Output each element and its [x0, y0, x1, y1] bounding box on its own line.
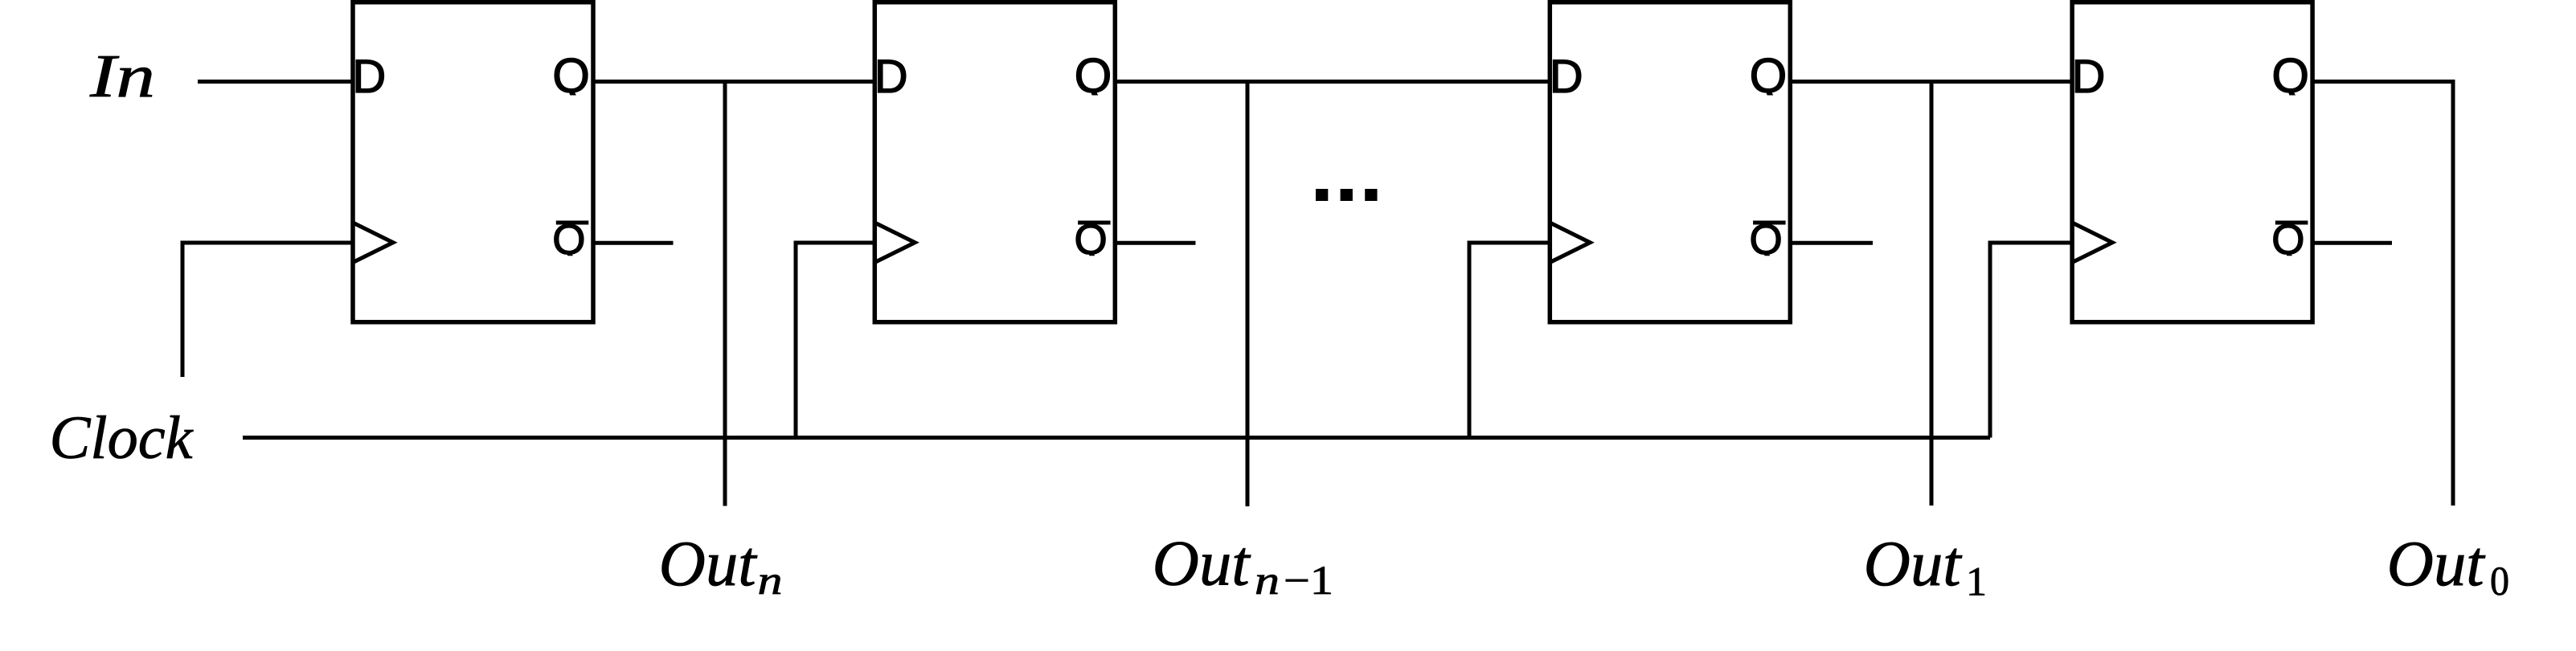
svg-text:Q: Q [1075, 49, 1112, 103]
wire U4 clock input from clock bus end [1990, 243, 2074, 438]
U4 pin label Q [2271, 49, 2309, 103]
U4 Qbar overline [2275, 221, 2308, 225]
U4 clock edge triangle [2072, 223, 2112, 263]
U1 pin label Q [552, 49, 590, 103]
svg-text:Q: Q [1750, 49, 1788, 103]
wire U2 Qbar stub [1115, 241, 1195, 245]
svg-text:−1: −1 [1284, 559, 1333, 604]
ellipsis dots between U2 and U3 [1316, 189, 1328, 201]
U1 clock edge triangle [353, 223, 393, 263]
wire U3.Q to U4.D [1790, 80, 2074, 84]
wire U1 clock input [182, 243, 354, 377]
wire U1 Qbar stub [593, 241, 674, 245]
flip-flop U4 box [2072, 2, 2312, 322]
svg-text:n: n [1255, 559, 1280, 604]
wire U2.Q to U3.D [1115, 80, 1551, 84]
wire U4.Q to Out_0 [2312, 82, 2453, 506]
svg-text:In: In [89, 43, 155, 110]
svg-text:Q: Q [552, 49, 590, 103]
wire In to U1 pin D [198, 80, 354, 84]
svg-text:1: 1 [1966, 560, 1987, 605]
U2 clock edge triangle [874, 223, 915, 263]
U4 pin label Qbar [2271, 216, 2304, 264]
U3 clock edge triangle [1550, 223, 1590, 263]
svg-text:Q: Q [2271, 49, 2309, 103]
svg-text:0: 0 [2490, 559, 2509, 604]
wire clock bus [243, 436, 1990, 440]
wire U2 clock input from clock bus [796, 243, 876, 438]
U1 pin label Qbar [552, 216, 585, 264]
svg-text:Out: Out [659, 529, 758, 600]
U2 pin label Qbar [1075, 216, 1108, 264]
wire Out_n-1 tap [1246, 82, 1250, 507]
svg-text:D: D [874, 51, 908, 103]
wire U3 clock input from clock bus [1469, 243, 1551, 438]
U1 Qbar overline [556, 221, 589, 225]
flip-flop U1 box [353, 2, 593, 322]
wire Out_n tap [723, 82, 727, 506]
svg-text:D: D [352, 51, 386, 103]
svg-text:Out: Out [1153, 529, 1251, 600]
U2 Qbar overline [1078, 221, 1111, 225]
U2 pin label Q [1075, 49, 1112, 103]
U3 pin label Q [1750, 49, 1788, 103]
wire U1.Q to U2.D [593, 80, 876, 84]
svg-text:D: D [1550, 51, 1583, 103]
wire U3 Qbar stub [1790, 241, 1873, 245]
U3 Qbar overline [1753, 221, 1786, 225]
svg-text:Out: Out [1864, 529, 1963, 600]
flip-flop U2 box [874, 2, 1115, 322]
flip-flop U3 box [1550, 2, 1790, 322]
svg-text:D: D [2072, 51, 2106, 103]
wire U4 Qbar stub [2312, 241, 2392, 245]
wire Out_1 tap [1930, 82, 1934, 506]
U3 pin label Qbar [1750, 216, 1783, 264]
svg-text:Out: Out [2387, 529, 2486, 600]
svg-text:n: n [758, 559, 783, 604]
svg-text:Clock: Clock [50, 404, 194, 472]
